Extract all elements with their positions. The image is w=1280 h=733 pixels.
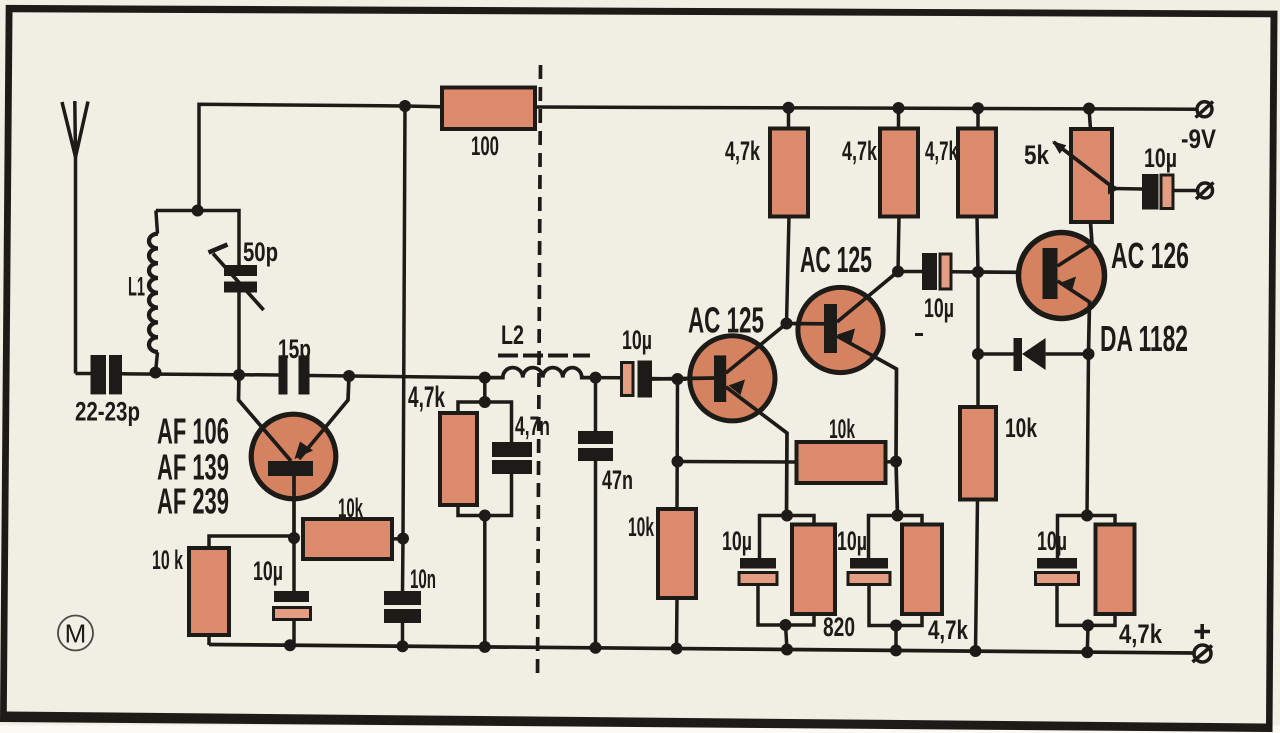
svg-text:10k: 10k [338, 492, 364, 523]
resistor 4,7k (mid vertical) [440, 413, 477, 505]
svg-text:10µ: 10µ [722, 525, 752, 556]
wire: to resistor 4,7k mid top [458, 402, 485, 413]
wire: AC126 base node vertical to diode and 10k [976, 272, 980, 407]
capacitor 22-23p [91, 355, 123, 394]
resistor 10k (emitter, horizontal) [303, 519, 403, 559]
capacitor 10u no2 with resistor 4,7k [848, 516, 898, 626]
svg-text:22-23p: 22-23p [75, 397, 140, 427]
svg-text:50p: 50p [243, 237, 278, 268]
svg-text:10k: 10k [1005, 413, 1038, 443]
speck near 10u label [915, 333, 923, 336]
transistor Q2 AC125 [652, 324, 787, 516]
inductor L2 [485, 356, 596, 378]
wire: AC126 base [978, 270, 1043, 274]
svg-text:820: 820 [823, 612, 855, 642]
svg-text:4,7k: 4,7k [928, 615, 969, 645]
M mark [58, 616, 93, 651]
svg-text:AC 126: AC 126 [1111, 237, 1189, 276]
antenna [62, 101, 88, 374]
wire: bottoms join [458, 474, 512, 516]
transistor U1 AF106/139/239 [239, 375, 350, 538]
svg-text:100: 100 [471, 131, 499, 161]
resistor 10k (horizontal, 2nd stage) [797, 442, 886, 483]
capacitor 10u (output, top right) [1114, 174, 1198, 210]
bottom rail wire [209, 645, 1193, 654]
dashed separator line [538, 65, 541, 680]
svg-text:10 k: 10 k [152, 545, 183, 575]
capacitor 47n [578, 378, 613, 648]
resistor 100 [442, 88, 535, 130]
svg-text:10µ: 10µ [924, 292, 954, 323]
resistor 4,7k no1 (top row) [770, 108, 808, 324]
wire: 15p to L2 node [309, 376, 485, 378]
capacitor 15p [279, 356, 310, 395]
svg-text:L2: L2 [501, 321, 524, 351]
capacitor 10u (coupling to AC126 base) [898, 253, 978, 290]
terminal -9V [1196, 102, 1214, 118]
capacitor 4,7n [492, 442, 532, 474]
wire: L1 vertical stubs [156, 211, 158, 373]
svg-text:DA 1182: DA 1182 [1100, 320, 1188, 359]
resistor 4,7k no2 (top row) [880, 108, 918, 272]
transistor Q4 AC126 [1019, 222, 1105, 354]
svg-text:10k: 10k [829, 414, 856, 445]
svg-text:10µ: 10µ [1037, 525, 1067, 556]
capacitor 10n [384, 591, 421, 646]
capacitor 10u (AF106 stage electrolytic) [274, 538, 311, 646]
svg-text:10k: 10k [628, 512, 655, 543]
wire: AC126 emitter down to output group [1087, 354, 1089, 516]
svg-text:L1: L1 [128, 271, 145, 302]
wire: vertical from rail node down to signal line and bottom (x=403) [403, 106, 406, 591]
wire: 50p bottom to signal line [237, 292, 241, 375]
svg-text:AC 125: AC 125 [800, 240, 872, 280]
svg-text:-9V: -9V [1181, 125, 1216, 154]
resistor 4,7k (output, right) [1087, 516, 1135, 653]
svg-text:10µ: 10µ [253, 555, 283, 586]
wire: top rail right of R100 to -9V terminal [535, 107, 1197, 109]
svg-text:AF 239: AF 239 [157, 482, 229, 522]
svg-text:4,7k: 4,7k [925, 136, 958, 166]
paper edge strip below frame [0, 726, 1280, 733]
terminal + [1193, 624, 1213, 662]
svg-text:AF 106: AF 106 [157, 412, 229, 452]
capacitor 10u (series coupling after L2) [596, 361, 687, 398]
svg-text:15p: 15p [278, 334, 311, 364]
svg-text:4,7k: 4,7k [842, 135, 877, 166]
svg-text:10µ: 10µ [837, 525, 867, 556]
transistor Q3 AC125 [787, 272, 899, 516]
inductor L1 [149, 234, 158, 352]
wire: 10k right end to emitter vertical [886, 460, 897, 464]
plus sign [1195, 624, 1211, 639]
node: L2 left branch [458, 378, 512, 647]
wire: to capacitor 4,7n top [485, 402, 512, 442]
resistor 820 [786, 516, 836, 650]
svg-text:4,7k: 4,7k [408, 381, 445, 414]
resistor 4,7k no3 (top row) [958, 108, 996, 272]
svg-text:10µ: 10µ [622, 324, 652, 355]
resistor 4,7k (emitter, 2nd stage) [896, 516, 942, 651]
wire: top rail left section [199, 104, 442, 210]
svg-text:4,7k: 4,7k [1119, 620, 1162, 650]
svg-text:AC 125: AC 125 [688, 301, 764, 341]
trimmer capacitor 50p [209, 245, 264, 311]
svg-text:5k: 5k [1024, 141, 1049, 170]
wire: antenna to C 22-23p [76, 372, 91, 376]
svg-text:4,7k: 4,7k [725, 135, 760, 166]
svg-text:10n: 10n [410, 563, 436, 594]
svg-text:47n: 47n [602, 464, 633, 495]
wire: AC125 no1 base node vertical [675, 379, 679, 509]
svg-text:10µ: 10µ [1144, 143, 1177, 173]
wire: emitter line to 10k horizontal [678, 460, 797, 464]
resistor 10k (vertical, AC126 base divider) [960, 407, 996, 651]
svg-text:4,7n: 4,7n [515, 410, 550, 441]
resistor 10k (base, vertical left) [189, 536, 294, 645]
wire: signal line C22-23p to 15p [122, 374, 279, 375]
svg-text:M: M [65, 619, 87, 649]
terminal output 2 [1196, 183, 1214, 200]
resistor 10k (mid vertical) [658, 509, 696, 649]
capacitor 10u no3 with resistor 4,7k (output stage) [1036, 516, 1089, 626]
capacitor 10u no1 with resistor 820 [739, 516, 787, 626]
wire: L1 top connection [156, 211, 239, 266]
resistor 5k (potentiometer) [1052, 109, 1120, 223]
diode DA1182 [978, 338, 1089, 371]
